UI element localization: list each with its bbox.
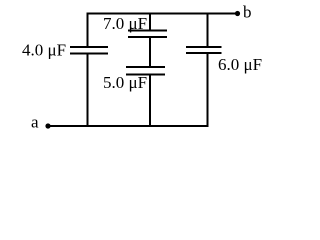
wire left branch lower stem: [87, 54, 89, 128]
wire middle branch lower stem: [149, 75, 151, 128]
svg-text:a: a: [31, 112, 39, 131]
capacitor C3 5.0 uF: [126, 66, 165, 68]
wire right branch upper stem: [207, 13, 209, 48]
svg-text:5.0 μF: 5.0 μF: [103, 73, 147, 92]
svg-text:b: b: [243, 3, 252, 22]
svg-text:7.0 μF: 7.0 μF: [103, 14, 147, 33]
capacitor C1 4.0 uF: [70, 46, 108, 48]
node a: [45, 123, 50, 128]
svg-text:4.0 μF: 4.0 μF: [22, 41, 66, 60]
wire right branch lower stem: [207, 53, 209, 127]
capacitor C4 6.0 uF: [186, 46, 222, 48]
top wire a-to-b rail: [87, 13, 237, 15]
wire left branch upper stem: [87, 13, 89, 48]
bottom wire a rail: [48, 125, 209, 127]
capacitor C2 7.0 uF: [128, 30, 167, 32]
node b: [235, 11, 240, 16]
wire middle branch center stem: [149, 37, 151, 67]
svg-text:6.0 μF: 6.0 μF: [218, 55, 262, 74]
wire middle branch upper stem: [149, 13, 151, 31]
